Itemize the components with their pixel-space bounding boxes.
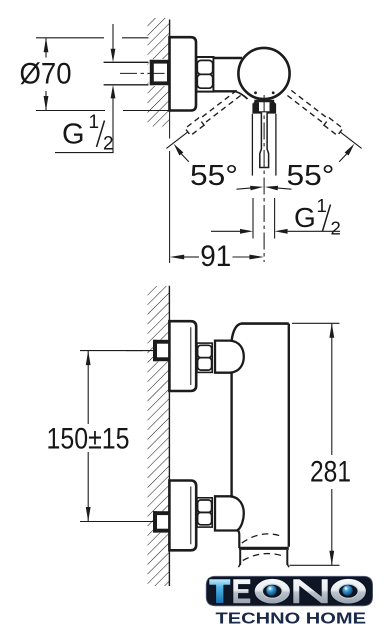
inlet pipe (top view) — [104, 61, 151, 63]
Ø70 dimension arrows — [44, 38, 49, 53]
hidden arc (outlet) — [243, 554, 285, 561]
svg-text:2: 2 — [103, 134, 114, 155]
upper union nut — [197, 343, 212, 372]
svg-text:G: G — [62, 119, 85, 151]
svg-text:55°: 55° — [287, 160, 335, 192]
shoulder above outlet — [239, 547, 289, 550]
lower wall socket — [153, 511, 170, 532]
lower union nut — [197, 498, 212, 527]
mixer ball housing (circle) — [238, 48, 289, 99]
lever handle (down position) — [260, 112, 269, 167]
upper inlet centerline — [126, 350, 170, 352]
svg-text:TECHNO HOME: TECHNO HOME — [216, 610, 367, 627]
55° arc arrow (right) — [345, 144, 355, 156]
barrel left edge — [230, 340, 232, 497]
lower inlet extension line — [80, 521, 168, 523]
logo letter N — [293, 579, 328, 604]
lever neck — [260, 98, 262, 102]
281 top extension line — [292, 322, 340, 324]
valve body (top view) — [214, 58, 243, 91]
angle extension line — [166, 132, 187, 149]
G 1/2 outlet dimension arrows — [211, 230, 240, 232]
svg-text:2: 2 — [331, 218, 341, 239]
barrel top-left chamfer — [232, 324, 241, 341]
index dots on ball — [254, 91, 257, 94]
escutcheon (top view) — [170, 37, 197, 110]
G 1/2 inlet thread callout — [112, 24, 114, 49]
55° arc arrows at centerline — [237, 188, 252, 189]
logo letter T (blue) — [209, 579, 231, 604]
upper escutcheon (front view) — [169, 321, 196, 391]
svg-text:91: 91 — [200, 240, 231, 273]
lower inlet centerline — [126, 521, 170, 523]
shower hose outlet — [239, 550, 241, 565]
lever/outlet centerline — [263, 95, 265, 262]
TEONO logo banner — [206, 576, 372, 606]
svg-text:1: 1 — [317, 195, 327, 216]
barrel top edge — [241, 322, 289, 325]
lower escutcheon (front view) — [169, 481, 196, 551]
wall socket (top view) — [149, 59, 171, 86]
svg-text:1: 1 — [89, 112, 100, 133]
svg-text:G: G — [294, 202, 316, 233]
G 1/2 outlet extension lines — [252, 198, 254, 239]
wall face extension line — [169, 112, 171, 139]
wall (top view, hatched) — [148, 18, 170, 127]
wall face line (front view) — [168, 286, 170, 586]
barrel right edge — [288, 324, 290, 547]
svg-text:150±15: 150±15 — [47, 422, 130, 455]
logo letter O (first) — [254, 578, 290, 604]
body-outlet fillet — [235, 91, 248, 99]
wall face line (top view) — [169, 20, 171, 113]
lever swung left 55° (dashed) — [203, 96, 240, 125]
281 dimension — [329, 323, 334, 338]
svg-text:281: 281 — [310, 456, 351, 489]
upper inlet housing — [215, 341, 244, 373]
55° arc arrow (left) — [174, 144, 184, 156]
G 1/2 leader underline — [55, 152, 114, 154]
upper wall socket — [153, 340, 170, 361]
lever swung right 55° (dashed) — [287, 96, 324, 125]
mixer body barrel — [233, 325, 289, 547]
upper inlet extension line — [80, 350, 168, 352]
union nut (top view) — [197, 57, 214, 92]
lever collar — [254, 101, 275, 112]
91 dimension — [170, 255, 185, 260]
281 bottom extension line — [290, 564, 340, 566]
svg-text:Ø70: Ø70 — [20, 58, 72, 91]
inlet centerline (top view) — [120, 72, 172, 74]
logo letter E — [233, 579, 251, 604]
svg-text:55°: 55° — [190, 160, 238, 192]
lower inlet housing — [215, 496, 244, 530]
logo letter O (second) — [330, 578, 366, 604]
150±15 dimension — [86, 351, 91, 366]
hidden arc (hose socket) — [242, 534, 283, 543]
shower outlet pipe (top view) — [251, 114, 253, 176]
Ø70 top extension line — [36, 37, 104, 39]
outlet boss below body — [237, 530, 240, 549]
wall (front view, hatched) — [148, 286, 170, 586]
Ø70 bottom extension line — [36, 110, 105, 112]
angle extension line — [340, 132, 361, 149]
